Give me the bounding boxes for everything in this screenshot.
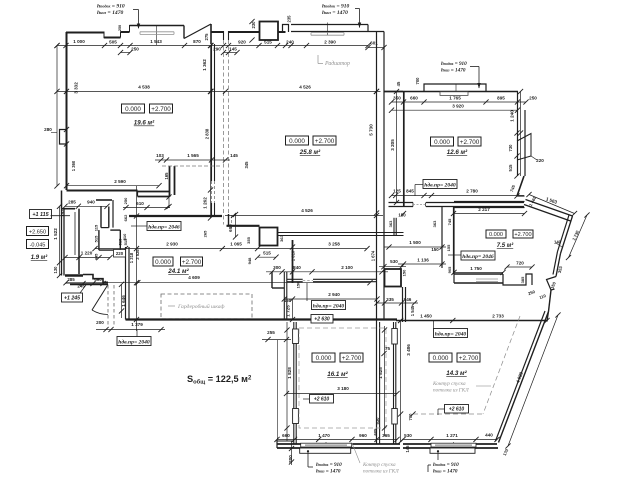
svg-text:0.000: 0.000 (433, 355, 449, 362)
dim: 3486 vertical (400, 321, 402, 442)
svg-text:240: 240 (286, 40, 294, 45)
svg-text:946: 946 (404, 297, 412, 302)
svg-text:0.000: 0.000 (489, 232, 503, 238)
dim: dashed tie (162, 165, 222, 167)
dim: 4939 diagonal (508, 315, 558, 446)
svg-text:745: 745 (447, 218, 452, 225)
ceiling contour 14.3 dashed (483, 316, 520, 414)
svg-text:1 522: 1 522 (53, 228, 58, 240)
svg-text:515: 515 (508, 164, 513, 172)
svg-text:530: 530 (404, 433, 412, 438)
svg-text:192: 192 (60, 209, 65, 216)
wall: jamb right of window (183, 26, 185, 39)
wall: room19.6 south face west (67, 190, 138, 192)
wall: room19.6 north face segment A (66, 32, 105, 34)
wall: room7.5 south inner (454, 282, 503, 284)
wall: NE corner outer step (367, 25, 369, 32)
svg-text:150: 150 (402, 269, 407, 276)
wall: central east face outer (376, 32, 378, 445)
dim: 4526 mid line (225, 215, 383, 217)
dim: 220 boxed (114, 250, 126, 258)
wall: east jog 150 (547, 277, 557, 291)
wall: big diagonal 4939 outer (499, 312, 549, 443)
svg-text:250: 250 (529, 96, 537, 101)
svg-text:1 828: 1 828 (287, 367, 292, 379)
dim: 601 at NE corner (368, 47, 384, 49)
dim: 690 vertical stub (235, 215, 237, 238)
dim: 1242 vertical (210, 91, 212, 218)
svg-text:1 646: 1 646 (121, 295, 126, 307)
svg-text:hдв.пр= 2040: hдв.пр= 2040 (435, 330, 467, 337)
svg-text:660: 660 (282, 433, 290, 438)
wall: east slant below 12.6 (517, 176, 524, 196)
svg-text:530: 530 (375, 417, 380, 425)
dim: left vertical 3332 (56, 46, 58, 187)
svg-text:662: 662 (123, 214, 128, 221)
door: room12.6 south door dashes (412, 203, 414, 207)
svg-text:+2.700: +2.700 (342, 355, 362, 362)
svg-text:3 486: 3 486 (406, 344, 411, 356)
svg-text:960: 960 (359, 433, 367, 438)
svg-text:660: 660 (410, 96, 418, 101)
wall: stub at 272 (272, 287, 285, 289)
hbox door 14.3 (434, 329, 468, 338)
svg-text:1 674: 1 674 (371, 250, 376, 261)
svg-text:730: 730 (508, 144, 513, 152)
svg-text:165: 165 (164, 172, 169, 180)
svg-text:+2.650: +2.650 (29, 229, 46, 235)
window: 14.3 south window (431, 443, 476, 447)
dim: 530 chimney top (379, 266, 406, 268)
svg-text:220: 220 (116, 251, 124, 256)
svg-text:145: 145 (405, 445, 410, 453)
svg-text:3 526: 3 526 (135, 249, 140, 260)
svg-text:hдв.пр= 2046: hдв.пр= 2046 (462, 253, 494, 260)
svg-text:hдв.пр= 2040: hдв.пр= 2040 (424, 181, 456, 188)
window: 16.1 south window (301, 443, 352, 447)
wall: partition dashed continuation (211, 181, 213, 203)
dim: 515 small (258, 256, 276, 258)
svg-text:16.1 м²: 16.1 м² (327, 371, 348, 378)
svg-text:2 390: 2 390 (324, 40, 336, 45)
svg-text:363: 363 (279, 234, 284, 241)
wall: corridor L-wall (393, 218, 395, 235)
svg-text:1 362: 1 362 (202, 59, 207, 71)
svg-text:700: 700 (415, 77, 420, 85)
svg-text:4 526: 4 526 (299, 85, 311, 90)
wall: 25.8 south wall east pair (278, 232, 404, 234)
svg-text:150: 150 (431, 247, 439, 252)
svg-text:2 930: 2 930 (166, 242, 178, 247)
svg-text:1 271: 1 271 (446, 433, 458, 438)
left elevation box +2.650 (27, 227, 49, 236)
svg-text:1 000: 1 000 (73, 39, 85, 44)
svg-text:250: 250 (123, 197, 128, 204)
wall: wc steps (83, 275, 108, 283)
svg-text:2 590: 2 590 (114, 179, 126, 184)
door: entry door leaf (92, 285, 108, 311)
dim: 2590 line (67, 185, 160, 187)
svg-text:3 332: 3 332 (74, 82, 79, 94)
svg-text:720: 720 (516, 261, 524, 266)
chimney block top (260, 22, 279, 41)
svg-text:hдв.пр= 2046: hдв.пр= 2046 (148, 223, 180, 230)
dim: 103/1565/145 chain (155, 159, 230, 161)
wall: central north wall seg2 (229, 31, 260, 33)
wall: bath room rect (110, 229, 120, 231)
svg-text:0.000: 0.000 (434, 139, 450, 146)
wall: closet partition east (174, 166, 176, 195)
wall: room12.6 south face (389, 202, 414, 204)
svg-text:1 500: 1 500 (409, 240, 421, 245)
wall: central north inner face (291, 31, 384, 33)
wall: closet partition west (169, 166, 171, 197)
door: entry dashed jambs (107, 285, 109, 327)
wall: diagonal east 1730 (561, 216, 573, 254)
dim: 700 vertical (398, 411, 403, 416)
ext line: 16.1 sw corner (276, 340, 278, 439)
svg-text:45: 45 (396, 81, 401, 86)
dim: 12.6 south chain (392, 195, 525, 197)
wall: 24.1 east wall (292, 240, 294, 283)
svg-text:+2 630: +2 630 (314, 317, 330, 323)
room 16.1 elevation boxes (312, 353, 335, 362)
svg-text:Контур спуска: Контур спуска (432, 381, 466, 387)
wall: room19.6 north recessed segment (104, 37, 121, 39)
wall: big diagonal 4939 inner (496, 311, 546, 441)
svg-text:hдв.пр= 2040: hдв.пр= 2040 (313, 302, 345, 309)
wall: room12.6 west face (403, 92, 405, 207)
svg-text:601: 601 (370, 41, 378, 46)
svg-text:+2.700: +2.700 (315, 138, 335, 145)
window sill box 16.1 (300, 448, 351, 453)
room 14.3 elevation boxes (429, 353, 452, 362)
left elevation box +1.115 (30, 210, 52, 219)
svg-text:0.000: 0.000 (289, 138, 305, 145)
left elevation box -0.045 (27, 240, 49, 249)
dim: 12.6 top chain (392, 101, 527, 103)
svg-text:220: 220 (536, 158, 544, 163)
dim: 16.1 south chain (277, 438, 397, 440)
svg-text:2 780: 2 780 (466, 189, 478, 194)
dim: 285/940 top chain (65, 205, 107, 207)
room 24.1 elevation boxes (153, 257, 173, 266)
dim: 1220 line (65, 257, 110, 259)
svg-text:+2.700: +2.700 (460, 139, 480, 146)
svg-text:285: 285 (68, 200, 76, 205)
wall: corridor south wall double (313, 278, 377, 280)
svg-text:1 450: 1 450 (420, 314, 432, 319)
svg-text:445: 445 (94, 253, 99, 260)
svg-text:605: 605 (373, 428, 378, 436)
wall: diagonal NE 1563 (526, 200, 573, 217)
svg-text:440: 440 (485, 433, 493, 438)
door: entry door arc (92, 310, 108, 315)
dim: 5730 vertical right of central (376, 47, 378, 213)
wall: corridor west of 7.5 (441, 207, 443, 269)
room 12.6 elevation boxes (431, 137, 454, 146)
dim: 3205 vertical (396, 92, 398, 203)
wall: hall top edge (62, 208, 76, 210)
wall: diagonal east 353 (556, 254, 561, 277)
svg-text:140: 140 (554, 240, 562, 245)
svg-text:840: 840 (293, 265, 301, 270)
dim: 200 vertical sw (291, 442, 293, 466)
dim: 300/840/2100 chain (266, 271, 388, 273)
svg-text:1 220: 1 220 (81, 251, 93, 256)
dim: 1362 vertical (210, 46, 212, 92)
+2 610 box 16.1 (310, 395, 334, 404)
hbox door mid (312, 301, 346, 310)
svg-text:7.5 м²: 7.5 м² (497, 242, 514, 249)
dim: 610 line (123, 207, 170, 209)
dim: 1644 vertical (121, 284, 123, 318)
wall: 14.3 south wall (403, 443, 497, 445)
wall: 14.3 north wall (396, 320, 547, 322)
svg-text:+2 610: +2 610 (449, 407, 465, 413)
svg-text:потолка из ГКЛ: потолка из ГКЛ (433, 388, 469, 394)
dim: 1750 line (454, 271, 503, 273)
wall: room19.6 west face (66, 32, 68, 190)
svg-text:150: 150 (296, 281, 301, 288)
svg-text:515: 515 (264, 40, 272, 45)
svg-text:145: 145 (230, 153, 238, 158)
svg-text:25.8 м²: 25.8 м² (299, 149, 321, 156)
svg-text:1 262: 1 262 (203, 197, 208, 209)
svg-text:530: 530 (390, 259, 398, 264)
wall: wc sill (65, 274, 83, 277)
leader: ceiling note 14.3 (476, 385, 491, 387)
svg-text:350: 350 (393, 96, 401, 101)
svg-text:19.6 м²: 19.6 м² (134, 120, 155, 127)
svg-text:345: 345 (244, 161, 249, 169)
wall: room7.5 north face (454, 201, 525, 203)
wall: 25.8 south wall west (227, 225, 260, 227)
dim: 4538/4526 line (57, 90, 381, 92)
dim: 720 line (507, 266, 532, 268)
svg-text:1 545: 1 545 (410, 305, 415, 316)
wall: west pilaster notch (60, 130, 67, 145)
svg-text:0.000: 0.000 (155, 259, 171, 266)
dim: top chain line (57, 45, 368, 47)
wall: room12.6 north main face (403, 91, 518, 93)
svg-text:2 100: 2 100 (341, 265, 353, 270)
svg-text:200: 200 (96, 320, 104, 325)
svg-text:510: 510 (122, 233, 127, 240)
wall: link wall to room12.6 (384, 91, 403, 93)
wall: corridor south wall / 24.1 bottom (126, 318, 398, 320)
wall: chimney block middle (385, 269, 402, 287)
wall: room7.5 south outer (454, 273, 503, 275)
wall: L-stub at 25.8 SW (228, 214, 230, 226)
svg-text:870: 870 (193, 39, 201, 44)
svg-text:610: 610 (136, 201, 144, 206)
dim: 200/1379 bottom (96, 329, 165, 331)
svg-text:2 940: 2 940 (328, 292, 340, 297)
svg-text:690: 690 (228, 224, 233, 232)
svg-text:385: 385 (520, 276, 525, 283)
wall: 16.1 south wall (277, 443, 400, 445)
left elevation box +1.245 (62, 293, 83, 302)
svg-text:2 217: 2 217 (478, 207, 490, 212)
dim: 1563 diagonal (529, 195, 575, 214)
svg-text:155: 155 (446, 244, 451, 251)
leader dot 16.1 (307, 450, 309, 452)
radiator label (317, 55, 319, 64)
svg-text:335: 335 (386, 297, 394, 302)
chimney block lower (260, 228, 278, 246)
wall: diagonal vent flue (184, 24, 211, 39)
svg-text:потолка из ГКЛ: потолка из ГКЛ (363, 469, 399, 475)
door: corridor door gap dashes (303, 280, 313, 282)
wall: room19.6 window wall outer face (130, 25, 185, 27)
svg-text:103: 103 (156, 153, 164, 158)
wall: diagonal top link (547, 312, 549, 322)
svg-text:290: 290 (213, 47, 221, 52)
hbox door corridor (461, 251, 495, 260)
wall: 16.1/14.3 partition (379, 322, 381, 444)
svg-text:255: 255 (267, 330, 275, 335)
svg-text:1 543: 1 543 (150, 39, 162, 44)
svg-text:1 240: 1 240 (510, 110, 515, 122)
wall: central north wall seg1 (211, 31, 224, 33)
wall: 24.1 north wall (129, 215, 222, 217)
+2 610 box 14.3 (445, 405, 469, 414)
svg-text:365: 365 (382, 433, 390, 438)
svg-text:1 065: 1 065 (230, 242, 242, 247)
svg-text:+1 115: +1 115 (32, 212, 49, 218)
wall: hall south wall (70, 283, 108, 285)
svg-text:125: 125 (393, 189, 401, 194)
svg-text:2 838: 2 838 (205, 128, 210, 139)
svg-text:515: 515 (94, 235, 99, 242)
wall: room19.6/25.8 partition upper (211, 44, 213, 181)
pilaster: 16.1 east lower (392, 409, 398, 425)
svg-text:1.9 м²: 1.9 м² (31, 254, 48, 261)
svg-text:300: 300 (273, 265, 281, 270)
window sill box 14.3 (430, 448, 475, 453)
svg-text:5 730: 5 730 (369, 124, 374, 136)
dim: 1725 vertical (292, 299, 294, 320)
svg-text:3 920: 3 920 (452, 104, 464, 109)
window center marks (156, 26, 158, 45)
svg-text:3 180: 3 180 (337, 386, 349, 391)
wall: 24.1 west wall (125, 247, 127, 320)
svg-text:940: 940 (87, 200, 95, 205)
dim: ticks on 14.3 north wall (398, 318, 403, 323)
wall: room19.6 north step down (103, 33, 105, 39)
svg-text:1 725: 1 725 (286, 305, 291, 317)
svg-text:4 526: 4 526 (301, 208, 313, 213)
dim: 14.3 south chain (403, 438, 497, 440)
room 19.6 elevation boxes (122, 104, 145, 113)
svg-text:-0.045: -0.045 (30, 242, 46, 248)
svg-text:1 310: 1 310 (291, 250, 296, 261)
dim: 1240 vertical (520, 92, 522, 177)
svg-text:hдв.пр= 2040: hдв.пр= 2040 (118, 338, 150, 345)
wall: central north wall seg3 (278, 31, 286, 33)
svg-text:145: 145 (229, 47, 237, 52)
wall: hall west wall (61, 191, 63, 209)
window: room19.6 north window glazing (140, 31, 174, 33)
svg-text:1 765: 1 765 (449, 96, 461, 101)
svg-text:Гардеробный шкаф: Гардеробный шкаф (177, 303, 225, 310)
svg-text:1 318: 1 318 (129, 252, 134, 263)
wall: 16.1 SW corner step (276, 439, 278, 448)
svg-text:895: 895 (497, 96, 505, 101)
dim: 1730 diagonal (569, 215, 588, 258)
svg-text:0.000: 0.000 (316, 355, 332, 362)
svg-text:285: 285 (67, 277, 75, 282)
dim: 3180 line (287, 393, 398, 395)
svg-text:14.3 м²: 14.3 м² (446, 370, 467, 377)
svg-text:Радиатор: Радиатор (324, 60, 350, 67)
svg-text:1 750: 1 750 (470, 266, 482, 271)
svg-text:+1 245: +1 245 (64, 296, 80, 302)
wall: corridor east wall upper (402, 287, 404, 322)
wall: room12.6 window bay outer (424, 84, 486, 92)
window: central north window (311, 32, 344, 34)
wall: partition lower stub (211, 203, 213, 216)
dim: 1522 vertical (59, 206, 61, 275)
dim: 2940 line (284, 298, 377, 300)
svg-text:505: 505 (109, 40, 117, 45)
opening: dashed passage at top (223, 40, 225, 225)
svg-text:1 379: 1 379 (131, 322, 143, 327)
wall: room12.6 east outer (524, 110, 526, 176)
dim: 3920 line (392, 109, 518, 111)
svg-text:3 258: 3 258 (328, 242, 340, 247)
svg-text:4 609: 4 609 (188, 275, 200, 280)
pilaster: 16.1 west upper (293, 329, 299, 344)
svg-text:948: 948 (247, 257, 252, 264)
svg-text:12.6 м²: 12.6 м² (447, 149, 468, 156)
dim: 2217 line (454, 213, 525, 215)
opening: solid jamb stubs (223, 31, 225, 40)
wall: room19.6 north step up to window wall (120, 32, 122, 38)
dim: 1828 east (384, 326, 386, 436)
wall: bath partition pair (100, 207, 102, 228)
svg-text:920: 920 (238, 40, 246, 45)
dim: long vertical ext line (136, 186, 138, 331)
dim: 2930/1065/3258 chain (95, 248, 367, 250)
svg-text:115: 115 (94, 224, 99, 231)
dim: 1828 west (286, 322, 288, 442)
wall: vertical at flue right (210, 24, 212, 44)
svg-text:24.1 м²: 24.1 м² (167, 268, 189, 275)
svg-text:845: 845 (406, 189, 414, 194)
window: room12.6 east Z-opening (517, 134, 531, 161)
wall: room12.6 east inner (517, 92, 519, 177)
svg-text:+2.700: +2.700 (514, 232, 531, 238)
svg-text:250: 250 (131, 47, 139, 52)
svg-text:+2 610: +2 610 (314, 397, 330, 403)
leader dot 14.3 (437, 450, 439, 452)
svg-text:+2.700: +2.700 (459, 355, 479, 362)
svg-text:515: 515 (263, 251, 271, 256)
dim: 1500 line (384, 246, 446, 248)
room 7.5 elevation boxes (486, 230, 506, 238)
pilaster: 16.1 east upper (392, 329, 398, 345)
svg-text:3 205: 3 205 (390, 139, 395, 151)
svg-text:4 538: 4 538 (138, 85, 150, 90)
svg-text:2 733: 2 733 (492, 314, 504, 319)
ceiling contour 16.1 dashed (299, 328, 386, 428)
room 25.8 elevation boxes (286, 136, 309, 145)
dim: 1136 line (398, 263, 446, 265)
svg-text:250: 250 (118, 25, 122, 31)
hbox door left (147, 222, 181, 231)
